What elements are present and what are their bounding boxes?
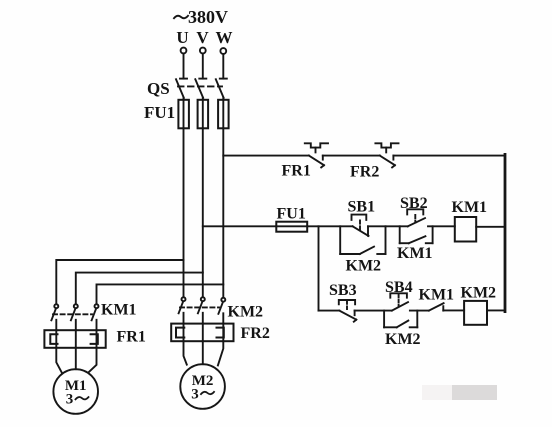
svg-text:KM2: KM2 (461, 285, 497, 302)
svg-text:3: 3 (191, 386, 199, 402)
svg-text:KM1: KM1 (419, 287, 455, 304)
fuse FU1 (control) (276, 222, 307, 232)
wire FR1 to motor M1 (56, 348, 96, 373)
fuse FU1 pole 3 (218, 98, 229, 129)
wire feed to KM1 pole3 (97, 284, 224, 304)
switch QS pole 2 (195, 79, 206, 98)
svg-text:V: V (196, 28, 209, 47)
wire coil KM1 to rail (476, 226, 505, 228)
wire KM2 contacts to FR2 (184, 313, 224, 324)
svg-text:FR1: FR1 (282, 163, 311, 180)
switch QS pole 1 (176, 79, 187, 98)
wire phase U down (183, 128, 185, 297)
wire phase V down (202, 128, 204, 297)
contactor KM1 main contacts (51, 304, 98, 320)
svg-text:FU1: FU1 (277, 206, 306, 223)
svg-text:KM1: KM1 (101, 302, 137, 319)
svg-text:QS: QS (147, 79, 170, 98)
wire row2 SB1 to SB2 (368, 225, 408, 227)
svg-text:FR2: FR2 (350, 164, 379, 181)
svg-text:U: U (176, 28, 188, 47)
thermal contact FR1 (NC) (305, 143, 328, 167)
svg-text:SB2: SB2 (400, 195, 428, 212)
pushbutton SB3 (NC) (339, 300, 357, 322)
svg-text:KM2: KM2 (385, 331, 421, 348)
wire SB4 to KM1 interlock (410, 310, 429, 312)
svg-text:KM2: KM2 (228, 304, 264, 321)
wire SB3 to SB4 (355, 310, 392, 312)
wire control row1 left (223, 155, 309, 157)
switch QS pole 3 (216, 79, 227, 98)
thermal relay FR1 heaters (44, 330, 105, 348)
motor M2 (180, 364, 225, 409)
contact KM2 (parallel with SB1) (340, 226, 385, 254)
fuse FU1 pole 2 (198, 98, 209, 129)
wire row1 right to rail (393, 155, 505, 157)
watermark (422, 385, 497, 400)
wire row1 middle (323, 155, 380, 157)
svg-text:FR2: FR2 (241, 325, 270, 342)
terminal V (200, 48, 206, 54)
wire V terminal to QS (202, 54, 204, 79)
wire SB2 to coil KM1 (428, 225, 455, 227)
thermal relay FR2 heaters (171, 324, 233, 342)
svg-text:SB4: SB4 (385, 279, 413, 296)
contact KM1 interlock (NC) (429, 303, 444, 310)
right rail (504, 154, 507, 311)
wire coil KM2 to rail (487, 309, 505, 311)
QS linkage dashed (178, 85, 222, 87)
svg-text:3: 3 (66, 392, 74, 408)
coil KM2 (464, 301, 487, 325)
contact KM2 self-hold (parallel with SB4) (384, 311, 417, 328)
svg-text:380V: 380V (188, 7, 228, 27)
coil KM1 (455, 217, 476, 242)
contact KM1 self-hold (parallel with SB2) (400, 226, 433, 243)
node row2/row3 branch (318, 226, 320, 310)
wire phase W down (222, 128, 224, 297)
svg-text:KM2: KM2 (346, 258, 382, 275)
svg-text:KM1: KM1 (397, 245, 433, 262)
wire feed to KM1 pole1 (56, 260, 183, 304)
svg-text:FR1: FR1 (117, 329, 146, 346)
terminal U (181, 48, 187, 54)
wire FR2 to motor M2 (184, 341, 224, 365)
svg-text:W: W (216, 28, 233, 47)
contactor KM2 main contacts (179, 297, 226, 314)
fuse FU1 pole 1 (178, 98, 189, 129)
wire KM1 interlock to coil KM2 (443, 309, 464, 311)
pushbutton SB4 (NO) (390, 293, 408, 310)
wire KM1 contacts to FR1 (56, 320, 96, 330)
wire control row2 left (203, 225, 276, 227)
wire U terminal to QS (183, 54, 185, 79)
wire W terminal to QS (222, 54, 224, 79)
pushbutton SB2 (NO) (407, 209, 425, 226)
motor M1 (53, 369, 98, 414)
wire row2 to SB1 (307, 225, 352, 227)
thermal contact FR2 (NC) (375, 143, 398, 167)
terminal W (220, 48, 226, 54)
svg-text:KM1: KM1 (452, 199, 488, 216)
svg-text:SB1: SB1 (348, 199, 376, 216)
pushbutton SB1 (NC) (352, 215, 369, 236)
svg-text:SB3: SB3 (329, 282, 357, 299)
wire feed to KM1 pole2 (76, 273, 203, 305)
wire control row3 left (319, 310, 340, 312)
svg-text:FU1: FU1 (144, 103, 175, 122)
